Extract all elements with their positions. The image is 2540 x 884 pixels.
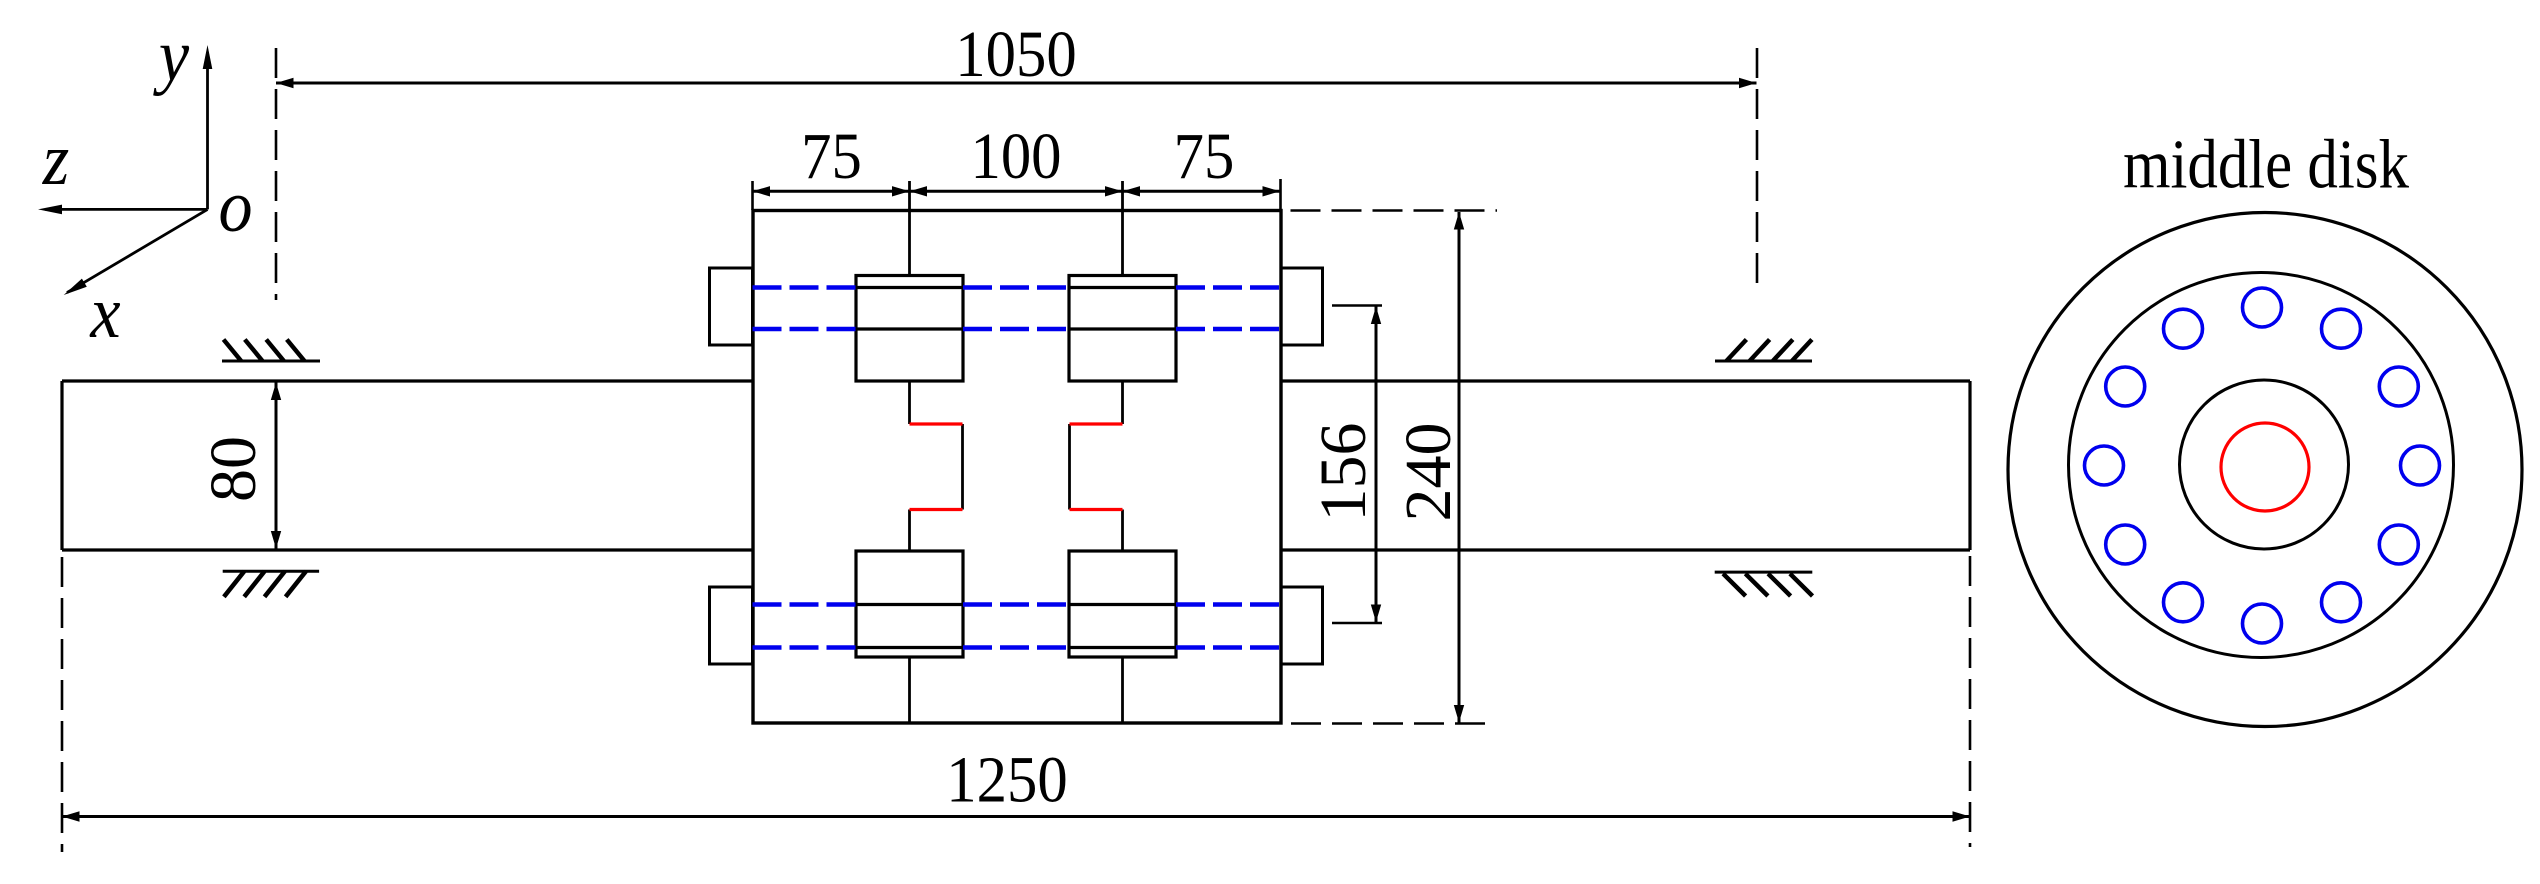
svg-text:240: 240 xyxy=(1392,423,1465,522)
svg-text:1050: 1050 xyxy=(955,17,1076,91)
svg-text:o: o xyxy=(218,166,252,247)
svg-text:100: 100 xyxy=(970,119,1061,193)
svg-text:156: 156 xyxy=(1307,423,1380,522)
svg-text:z: z xyxy=(42,119,69,200)
svg-text:75: 75 xyxy=(801,119,862,193)
svg-text:x: x xyxy=(89,272,121,353)
svg-text:80: 80 xyxy=(197,436,270,502)
svg-text:1250: 1250 xyxy=(946,742,1067,816)
svg-text:75: 75 xyxy=(1174,119,1235,193)
svg-text:y: y xyxy=(153,15,189,96)
svg-text:middle disk: middle disk xyxy=(2123,127,2409,204)
